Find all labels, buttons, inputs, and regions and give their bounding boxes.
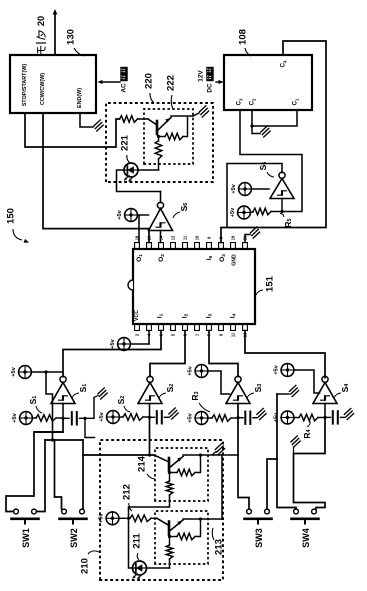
svg-text:10: 10 xyxy=(195,235,200,240)
wire R5 node to S5 base xyxy=(281,199,283,212)
svg-text:STOP/START(W): STOP/START(W) xyxy=(22,64,28,107)
ground above SW4 xyxy=(289,385,295,391)
capacitor C channel 3 xyxy=(238,417,243,419)
ground at C2 xyxy=(261,126,267,132)
wire node2 down to photocoupler rail xyxy=(149,417,151,455)
svg-text:+5v: +5v xyxy=(230,207,236,217)
svg-text:+5v: +5v xyxy=(99,411,105,421)
wire S6 output to LED node xyxy=(160,192,162,203)
svg-text:12V: 12V xyxy=(198,70,205,82)
svg-text:GND: GND xyxy=(232,254,238,266)
block 130 motor driver box xyxy=(10,55,96,113)
IC 151 notch xyxy=(128,280,133,290)
wire pull-up to switch bus xyxy=(46,372,53,440)
+5v source R1 xyxy=(20,412,33,425)
resistor in 220 base line xyxy=(120,116,138,123)
214 resistor vertical xyxy=(166,481,173,495)
schmitt trigger S4 xyxy=(313,383,337,404)
stub cap1 down xyxy=(85,418,95,437)
wire I4 to S4 xyxy=(245,331,325,378)
ground at END output xyxy=(94,120,100,126)
motor output arrow to motor 20 xyxy=(54,13,56,55)
resistor R2 xyxy=(123,414,143,421)
IC pin bottom 13 xyxy=(243,324,248,331)
svg-text:14: 14 xyxy=(159,235,164,240)
IC pin top 19 xyxy=(231,243,236,250)
base-emitter resistor of 222 horizontal xyxy=(157,135,160,138)
ground chain vertical to SW4 left xyxy=(277,394,296,509)
+5v source R4 xyxy=(281,411,294,424)
svg-text:END(W): END(W) xyxy=(77,88,83,108)
svg-text:108: 108 xyxy=(238,29,249,45)
IC 151 microcontroller body xyxy=(133,249,255,324)
annotation AC power supply arrow xyxy=(100,81,120,83)
svg-text:11: 11 xyxy=(183,235,188,240)
wire CCW/CW to IC pin 2 xyxy=(43,113,149,243)
switch SW3 actuator bar xyxy=(245,517,272,520)
IC pin bottom 2 xyxy=(135,324,140,331)
+5v pull-up channel 1 xyxy=(19,366,32,379)
+5v source at R5 xyxy=(238,206,251,219)
wire C2-C1 junction to ground xyxy=(252,110,297,126)
IC pin bottom 1 xyxy=(195,324,200,331)
svg-text:+5v: +5v xyxy=(12,412,18,422)
LED 221 xyxy=(124,163,138,177)
svg-text:+5v: +5v xyxy=(110,338,116,348)
IC pin bottom 5 xyxy=(171,324,176,331)
node channel 3 xyxy=(236,416,239,419)
switch SW2 contacts xyxy=(62,509,67,514)
svg-text:SW4: SW4 xyxy=(301,528,311,548)
svg-text:SW1: SW1 xyxy=(21,528,31,548)
schmitt trigger S3 xyxy=(226,383,250,404)
node channel 1 xyxy=(61,417,64,420)
resistor R1 xyxy=(36,415,56,422)
svg-text:SW2: SW2 xyxy=(69,528,79,548)
wire H2 to SW1 right contact xyxy=(37,440,45,512)
+5v source in 210 xyxy=(106,512,119,525)
switch SW4 actuator bar xyxy=(292,517,319,520)
collector resistor of 222 vertical xyxy=(155,141,162,159)
phototransistor box 222 dashed xyxy=(144,109,193,164)
svg-text:+5v: +5v xyxy=(117,209,123,219)
IC pin top 10 xyxy=(195,243,200,250)
resistor R3 xyxy=(212,415,231,422)
photocoupler box 210 dashed xyxy=(100,440,223,580)
IC pin top 9 xyxy=(207,243,212,250)
svg-text:130: 130 xyxy=(66,29,77,45)
photocoupler rail to SW3 xyxy=(83,454,155,456)
wire node1 to SW1 xyxy=(6,418,63,511)
IC pin bottom 9 xyxy=(219,324,224,331)
capacitor C channel 1 xyxy=(63,417,69,419)
svg-text:222: 222 xyxy=(166,75,177,91)
phototransistor 214 xyxy=(168,458,171,471)
schmitt trigger S5 xyxy=(270,179,294,199)
switch SW1 contacts xyxy=(14,509,19,514)
wire cap1 to ground xyxy=(85,398,94,419)
IC pin bottom 3 xyxy=(183,324,188,331)
svg-text:20: 20 xyxy=(36,16,46,26)
+5v source R2 xyxy=(107,411,120,424)
wire H2 to SW2 right contact xyxy=(82,440,84,509)
IC pin bottom 6 xyxy=(159,324,164,331)
IC pin top 14 xyxy=(159,243,164,250)
label motor 20 xyxy=(38,46,46,54)
phototransistor box 213 dashed xyxy=(155,511,208,564)
wire C3 to R5 node xyxy=(240,110,302,212)
wire C4 to right rail xyxy=(221,41,326,243)
wire IC GND pin to ground xyxy=(245,235,250,243)
wire S6 base to IC pin xyxy=(160,231,162,243)
svg-text:19: 19 xyxy=(231,235,236,240)
svg-text:+5v: +5v xyxy=(188,412,194,422)
schmitt trigger S6 xyxy=(149,209,173,231)
wire SW3 left staple xyxy=(238,455,249,509)
block 108 sensor box xyxy=(224,55,312,110)
svg-text:20: 20 xyxy=(243,235,248,240)
wire H2 to SW2 left contact xyxy=(55,440,62,509)
capacitor C channel 4 xyxy=(325,416,331,418)
svg-text:AC: AC xyxy=(121,83,128,93)
svg-text:212: 212 xyxy=(122,484,133,500)
horizontal bus H2 xyxy=(45,439,83,441)
IC pin bottom 11 xyxy=(231,324,236,331)
213 base-emitter resistor horizontal xyxy=(168,535,171,538)
IC pin top 11 xyxy=(183,243,188,250)
schmitt trigger S1 xyxy=(51,383,75,404)
svg-text:+5v: +5v xyxy=(188,365,194,375)
svg-text:210: 210 xyxy=(80,558,91,574)
214 base-emitter resistor horizontal xyxy=(168,471,171,474)
wire STOP/START to photocoupler 220 xyxy=(25,113,120,147)
wire I3 to S3 xyxy=(209,331,238,377)
wire node4 to SW4 right contact xyxy=(294,417,326,508)
wire SW3 right to ground chain xyxy=(267,459,277,509)
resistor 212 xyxy=(130,515,151,522)
ground stub near SW4 xyxy=(293,447,295,454)
wire LED 221 to S6 output xyxy=(139,169,159,171)
+5v pull-up channel 4 xyxy=(281,364,294,377)
switch SW1 actuator bar xyxy=(12,517,39,520)
svg-text:214: 214 xyxy=(137,455,148,472)
IC pin top 20 xyxy=(243,243,248,250)
node channel 4 xyxy=(323,416,326,419)
IC pin bottom 4 xyxy=(147,324,152,331)
IC pin bottom 7 xyxy=(207,324,212,331)
svg-text:18: 18 xyxy=(135,235,140,240)
IC pin top 16 xyxy=(147,243,152,250)
ground at 222 emitter xyxy=(199,106,205,112)
213 resistor vertical xyxy=(166,545,173,559)
horizontal bus H1 xyxy=(34,431,63,433)
schmitt trigger S2 xyxy=(138,383,162,404)
switch SW3 contacts xyxy=(247,509,252,514)
svg-text:220: 220 xyxy=(144,73,155,89)
wire I1 to S1 xyxy=(63,331,161,377)
svg-text:+5v: +5v xyxy=(274,364,280,374)
wire S5 output to IC pin I5 xyxy=(227,164,282,228)
wire 214 emitter to ground rail xyxy=(183,454,238,456)
ground channel 3 cap xyxy=(257,408,263,414)
ground channel 4 cap xyxy=(344,408,350,414)
wire LED 211 left to +5v node xyxy=(129,518,133,568)
wire 213 emitter right xyxy=(183,518,222,520)
svg-text:211: 211 xyxy=(132,533,143,549)
svg-text:221: 221 xyxy=(120,134,131,151)
wire 222 emitter to ground xyxy=(171,115,193,117)
svg-text:151: 151 xyxy=(265,275,276,292)
svg-text:SW3: SW3 xyxy=(254,528,264,548)
wire LED 211 right to resistor xyxy=(147,567,170,569)
node channel 2 xyxy=(148,416,151,419)
svg-text:+5v: +5v xyxy=(231,183,237,193)
IC pin top 12 xyxy=(171,243,176,250)
LED 211 xyxy=(133,561,147,575)
wire S3 base through node down to rail xyxy=(237,404,239,456)
switch SW4 contacts xyxy=(294,509,299,514)
+5v source at S6 input xyxy=(125,209,138,222)
ground channel 2 cap xyxy=(169,408,175,414)
ground at IC GND xyxy=(250,227,256,233)
+5v source R3 xyxy=(195,412,208,425)
wire +5v to IC pin O1 xyxy=(138,215,140,243)
wire I2 to S2 xyxy=(150,331,185,377)
wire END to ground xyxy=(80,113,93,127)
svg-text:DC: DC xyxy=(207,83,214,93)
+5v source at VCC xyxy=(118,338,131,351)
svg-text:12: 12 xyxy=(171,235,176,240)
phototransistor box 214 dashed xyxy=(155,448,208,501)
phototransistor 222 xyxy=(156,121,159,134)
svg-text:+5v: +5v xyxy=(11,366,17,376)
+5v pull-up channel 3 xyxy=(195,365,208,378)
+5v source at S5 input xyxy=(239,183,252,196)
svg-text:213: 213 xyxy=(214,539,225,555)
switch SW2 actuator bar xyxy=(60,517,87,520)
resistor R4 xyxy=(299,414,318,421)
svg-text:+5v: +5v xyxy=(99,513,105,523)
IC pin top 18 xyxy=(135,243,140,250)
svg-text:11: 11 xyxy=(231,332,236,337)
ground on rail xyxy=(212,452,216,456)
svg-text:16: 16 xyxy=(147,235,152,240)
capacitor C channel 2 xyxy=(150,416,155,418)
svg-text:VCC: VCC xyxy=(134,310,140,321)
photocoupler box 220 dashed xyxy=(106,103,213,182)
IC pin top 8 xyxy=(219,243,224,250)
wire between rails xyxy=(221,455,223,519)
ground channel 1 cap xyxy=(98,388,104,394)
resistor R5 xyxy=(253,208,271,215)
svg-text:150: 150 xyxy=(6,208,17,224)
phototransistor 213 xyxy=(168,522,171,535)
svg-text:CCW/CW(W): CCW/CW(W) xyxy=(40,73,46,105)
annotation 12V DC power supply arrow xyxy=(216,81,221,83)
